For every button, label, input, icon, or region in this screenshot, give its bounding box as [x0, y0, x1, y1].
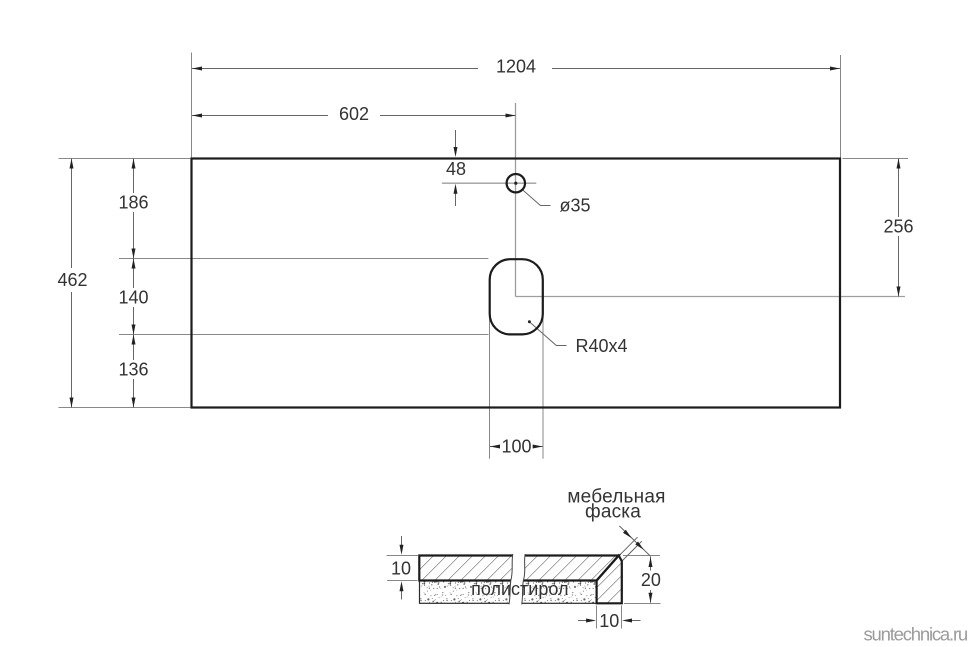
svg-text:462: 462: [57, 270, 87, 290]
center line vertical through hole and basin: [515, 103, 517, 297]
extension line top-left vertical: [191, 53, 193, 158]
svg-text:186: 186: [118, 193, 148, 213]
faucet hole circle: [507, 174, 525, 192]
extension line basin left vertical: [489, 318, 491, 459]
extension line basin right vertical: [542, 318, 544, 459]
center line horizontal through hole: [442, 182, 536, 184]
center line horizontal through basin center: [516, 296, 906, 298]
countertop outline: [192, 159, 841, 408]
dimension 48 lower arrow: [455, 194, 457, 207]
svg-text:полистирол: полистирол: [471, 579, 568, 599]
section extension apron right vertical: [621, 606, 623, 629]
svg-text:20: 20: [641, 570, 661, 590]
extension line left countertop top: [59, 158, 191, 160]
svg-text:136: 136: [118, 360, 148, 380]
dimension 1204: [192, 68, 478, 70]
break line left: [509, 554, 513, 604]
dimension 48 upper arrow: [455, 130, 457, 148]
dimension 256: [898, 159, 900, 218]
leader hole diameter o35: [523, 190, 551, 206]
chamfer leader dimension line with arrows: [619, 526, 651, 557]
dimension 20: [650, 557, 652, 571]
polystyrene layer: [420, 581, 597, 604]
dimension 186: [133, 159, 135, 194]
dimension 10 left arrows: [401, 536, 403, 546]
svg-text:1204: 1204: [496, 57, 536, 77]
dimension 140: [133, 259, 135, 289]
svg-text:256: 256: [883, 217, 913, 237]
dimension 462: [71, 159, 73, 269]
svg-text:10: 10: [391, 558, 411, 578]
section extension top-left: [387, 555, 419, 557]
svg-text:ø35: ø35: [560, 196, 591, 216]
section extension slab bottom-left: [387, 580, 418, 582]
extension line left countertop bottom: [59, 407, 191, 409]
section extension top-right: [623, 555, 660, 557]
svg-text:фаска: фаска: [585, 501, 641, 522]
leader basin radius R40x4: [528, 320, 531, 323]
dimension 10 bottom arrows: [578, 620, 587, 622]
break gap white: [509, 553, 525, 606]
svg-text:140: 140: [118, 288, 148, 308]
section extension bottom-right: [624, 603, 661, 605]
chamfer leader extension line B: [622, 541, 642, 561]
edge apron with chamfer hatched: [597, 556, 622, 604]
svg-text:R40x4: R40x4: [576, 336, 628, 356]
svg-text:100: 100: [501, 437, 531, 457]
extension line right countertop top: [843, 158, 909, 160]
extension line basin bottom tangent: [119, 334, 488, 336]
svg-text:10: 10: [599, 611, 619, 631]
break line right: [522, 554, 526, 604]
dimension 100 arrows: [490, 446, 500, 448]
svg-text:48: 48: [446, 159, 466, 179]
basin cutout rounded rectangle: [490, 259, 543, 334]
svg-text:suntechnica.ru: suntechnica.ru: [863, 624, 967, 645]
stone slab hatched: [419, 556, 618, 581]
dimension 602: [192, 115, 328, 117]
chamfer leader extension line A: [619, 537, 638, 556]
extension line top-right vertical: [840, 55, 842, 157]
section extension apron left vertical: [596, 606, 598, 629]
svg-text:602: 602: [339, 104, 369, 124]
extension line basin top tangent: [119, 258, 488, 260]
dimension 136: [133, 335, 135, 361]
faucet hole center dot: [514, 182, 517, 185]
